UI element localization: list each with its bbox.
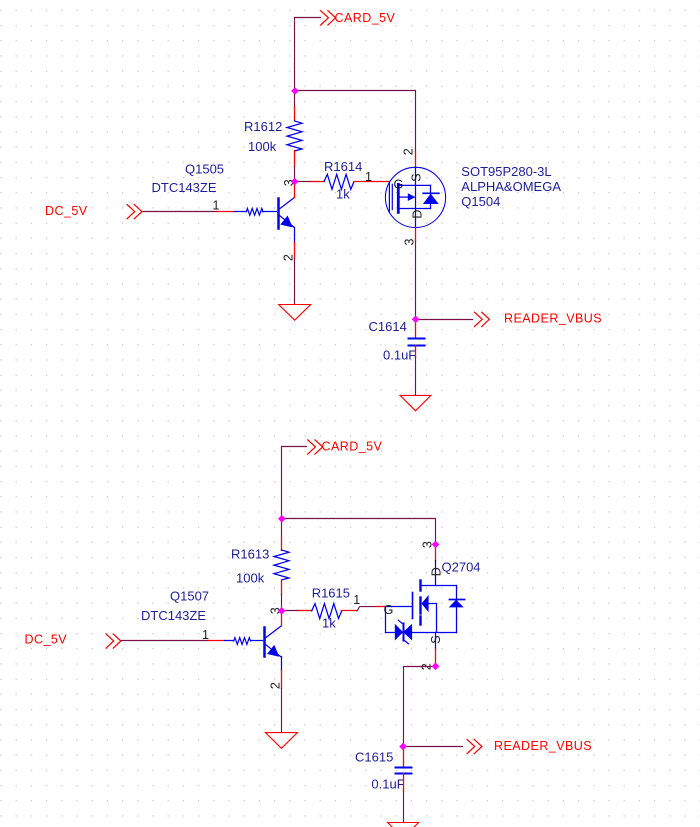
wire CARD_5V vertical [294, 18, 296, 91]
svg-text:Q1505: Q1505 [185, 162, 224, 177]
Q1505 internal base resistor [235, 211, 247, 213]
svg-text:Q1504: Q1504 [461, 194, 500, 209]
svg-text:3: 3 [403, 239, 417, 246]
mosfet Q2704 substrate arrow [422, 595, 429, 612]
pin stub C1614 top [415, 320, 417, 339]
wire J1 to R1612 [294, 91, 296, 107]
svg-text:S: S [410, 173, 424, 181]
svg-text:100k: 100k [248, 139, 277, 154]
transistor Q1507 emitter with arrow [265, 644, 281, 657]
svg-text:C1615: C1615 [355, 750, 393, 765]
pin 3 stub Q1504 [415, 228, 417, 242]
svg-text:READER_VBUS: READER_VBUS [504, 312, 602, 326]
mosfet Q2704 source bus [386, 632, 457, 634]
pin stub R1615 left [299, 610, 312, 612]
capacitor C1615 [396, 767, 412, 769]
transistor Q1505 emitter with arrow [279, 215, 295, 228]
svg-text:G: G [394, 178, 404, 192]
svg-text:1: 1 [353, 593, 360, 607]
pin stub R1613 bottom [281, 581, 283, 595]
svg-text:SOT95P280-3L: SOT95P280-3L [461, 164, 551, 179]
pin 2 stub Q1505 emitter [294, 243, 296, 259]
node CARD_5V flag chevron [321, 11, 336, 25]
svg-text:1: 1 [365, 170, 372, 184]
pin stub C1615 bottom [403, 774, 405, 792]
mosfet Q1504 drain lead [415, 209, 417, 228]
wire R1612 to J2 [294, 167, 296, 182]
pin 3 stub Q2704 [435, 545, 437, 561]
junction J3 [412, 315, 420, 323]
mosfet Q1504 body diode [430, 185, 432, 193]
mosfet Q1504 source bar [398, 184, 430, 186]
svg-text:DC_5V: DC_5V [25, 633, 68, 647]
Q1507 internal base resistor [225, 640, 234, 642]
pin stub R1613 top [281, 537, 283, 551]
pin 2 stub Q2704 [435, 649, 437, 667]
wire CARD_5V stub (bottom circuit) [282, 446, 307, 448]
svg-text:100k: 100k [236, 570, 265, 585]
wire J2 to R1614 [295, 181, 311, 183]
pin 2 stub Q1507 emitter [281, 671, 283, 689]
svg-text:Q2704: Q2704 [442, 560, 481, 575]
svg-text:ALPHA&OMEGA: ALPHA&OMEGA [461, 179, 561, 194]
wire CARD_5V stub top [295, 17, 321, 19]
svg-text:R1612: R1612 [244, 119, 282, 134]
wire J6 to R1615 [282, 610, 299, 612]
node DC_5V chevron [127, 205, 142, 219]
wire CARD_5V vertical (bottom) [281, 447, 283, 519]
pin 1 stub Q1507 [209, 640, 225, 642]
wire J3 to READER_VBUS [416, 319, 473, 321]
mosfet Q1504 gate line 1 [388, 182, 390, 211]
resistor R1615 body [312, 604, 342, 619]
pin stub R1612 top [294, 107, 296, 121]
node READER_VBUS chevron (bottom) [467, 739, 482, 753]
pin stub C1615 top [403, 747, 405, 768]
mosfet Q2704 body diode [456, 586, 458, 600]
svg-text:R1615: R1615 [312, 586, 350, 601]
mosfet Q2704 source column [436, 604, 438, 633]
mosfet Q1504 center column [415, 185, 417, 208]
wire emitter to ground [294, 259, 296, 305]
mosfet Q1504 drain bar [398, 208, 430, 210]
mosfet Q1504 circle [385, 167, 445, 227]
mosfet Q2704 source lead [435, 633, 437, 649]
svg-text:READER_VBUS: READER_VBUS [494, 739, 592, 753]
ground (below C1615) [388, 823, 419, 827]
pin stub R1614 left [311, 181, 325, 183]
pin stub R1615 right [342, 610, 357, 612]
wire DC_5V (bottom) [122, 640, 209, 642]
svg-text:1k: 1k [336, 186, 350, 201]
wire emitter to ground (bottom) [281, 689, 283, 733]
wire top rail horizontal [295, 90, 416, 92]
svg-text:R1614: R1614 [324, 159, 362, 174]
transistor Q1505 base bar [277, 199, 280, 229]
svg-text:0.1uF: 0.1uF [383, 348, 416, 363]
resistor R1613 body [274, 550, 289, 580]
svg-text:CARD_5V: CARD_5V [335, 11, 396, 25]
pin stub R1614 right / gate wire [355, 181, 390, 183]
junction J1 [291, 87, 299, 95]
svg-text:CARD_5V: CARD_5V [322, 439, 383, 453]
svg-text:Q1507: Q1507 [170, 588, 209, 603]
svg-text:2: 2 [282, 254, 296, 261]
wire rail to Q2704 [282, 519, 436, 545]
mosfet Q2704 drain lead [435, 561, 437, 586]
wire R1613 to J6 [281, 595, 283, 611]
wire C1614 to ground [415, 358, 417, 395]
junction J4 [278, 515, 286, 523]
svg-text:C1614: C1614 [369, 319, 407, 334]
wire Q1504 drain to J3 [415, 242, 417, 320]
svg-text:R1613: R1613 [231, 546, 269, 561]
mosfet Q1504 gate line 2 [391, 184, 393, 209]
node CARD_5V flag chevron (bottom) [308, 440, 323, 454]
wire jog R1615 to gate [357, 607, 376, 611]
mosfet Q2704 gate down link [385, 607, 387, 633]
wire J4 to R1613 [281, 519, 283, 537]
junction J2 [291, 178, 299, 186]
junction J6 [278, 607, 286, 615]
svg-text:D: D [411, 210, 425, 219]
wire rail to Q1504 pin2 [415, 91, 417, 152]
svg-text:DTC143ZE: DTC143ZE [141, 608, 206, 623]
ground (below C1614) [400, 395, 431, 410]
capacitor C1614 [409, 338, 425, 340]
svg-text:0.1uF: 0.1uF [371, 776, 404, 791]
svg-text:2: 2 [269, 682, 283, 689]
pin 1 stub Q1505 [217, 211, 235, 213]
mosfet Q1504 substrate arrow [400, 196, 408, 198]
svg-text:1: 1 [213, 199, 220, 213]
pin 1 stub Q2704 gate [377, 606, 386, 608]
wire C1615 to ground [403, 792, 405, 823]
transistor Q1505 input wire [143, 211, 217, 213]
svg-text:1: 1 [202, 628, 209, 642]
mosfet Q2704 channel dashes [419, 581, 421, 591]
svg-text:DC_5V: DC_5V [45, 204, 88, 218]
mosfet Q1504 channel bar [397, 184, 400, 212]
pin stub R1612 bottom [294, 151, 296, 167]
ground (below Q1507) [265, 733, 297, 749]
resistor R1614 body [324, 174, 354, 189]
transistor Q1507 base bar [263, 628, 266, 657]
pin stub C1614 bottom [415, 346, 417, 358]
svg-text:1k: 1k [322, 616, 336, 631]
junction J5 [432, 541, 440, 549]
transistor Q1507 collector [265, 626, 282, 639]
wire J7 to C1615 column [404, 667, 436, 747]
svg-text:2: 2 [402, 148, 416, 155]
node READER_VBUS chevron [475, 312, 490, 326]
node DC_5V chevron (bottom) [106, 634, 121, 648]
mosfet Q2704 gate wire [386, 606, 413, 608]
junction J7 [432, 662, 440, 670]
ground (top circuit) [279, 305, 311, 321]
mosfet Q1504 source lead [415, 167, 417, 185]
TVS diode pair [395, 624, 403, 641]
mosfet Q2704 gate bar [412, 593, 414, 619]
svg-text:DTC143ZE: DTC143ZE [152, 180, 217, 195]
mosfet Q2704 top bar [421, 585, 457, 587]
wire J8 to READER_VBUS [404, 746, 463, 748]
junction J8 [399, 743, 407, 751]
transistor Q1505 collector [279, 197, 295, 209]
resistor R1612 body [287, 121, 302, 151]
pin 2 stub Q1504 [415, 152, 417, 168]
